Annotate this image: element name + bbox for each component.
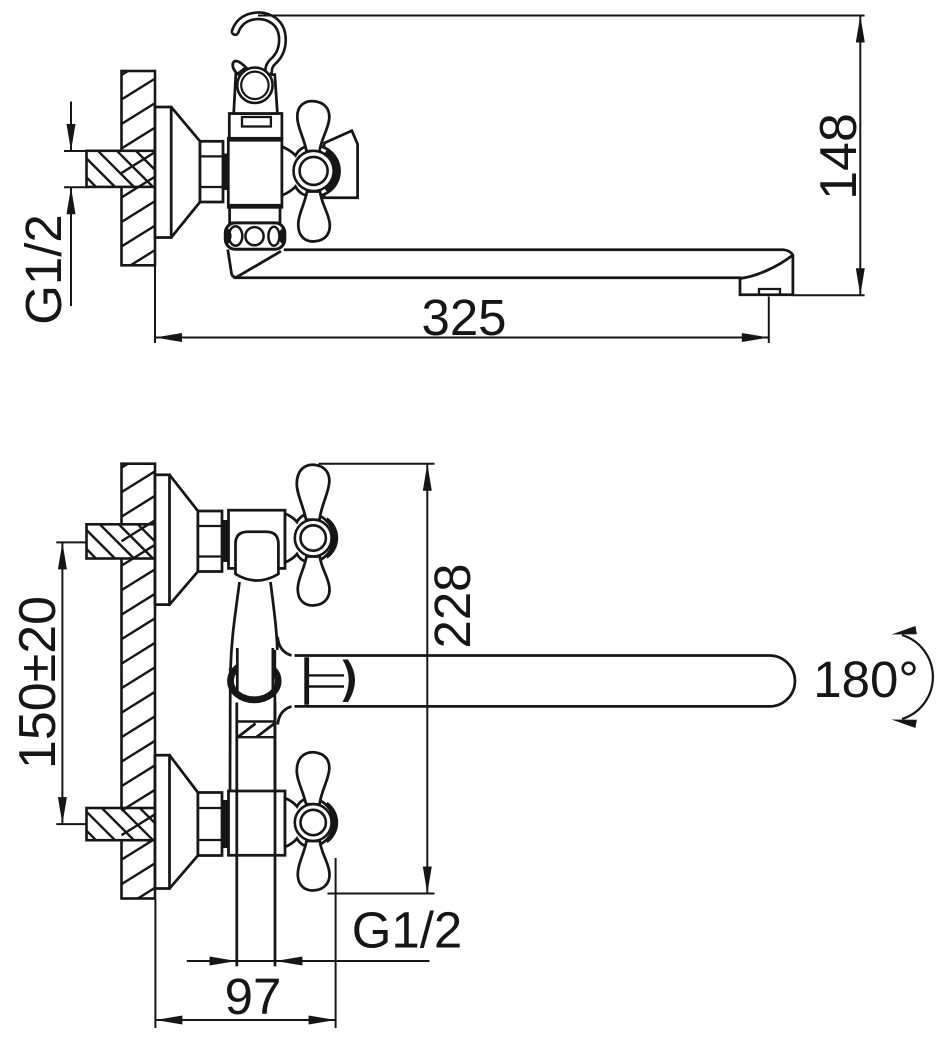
front view: swivel spout tube with round end xyxy=(295,656,795,707)
top view: spout tube xyxy=(234,250,793,295)
dimension 97: dimension line with arrows xyxy=(155,1019,335,1021)
front view: shower outlet tail G1/2 xyxy=(235,703,238,967)
front view: upper washer (dark) xyxy=(222,520,229,562)
svg-text:180°: 180° xyxy=(813,651,919,708)
front view: riser tube entering ring xyxy=(236,648,239,693)
top view: skirt under body xyxy=(230,207,280,223)
front view: spout top fillet xyxy=(278,637,292,656)
dimension 150±20: dimension line with arrows xyxy=(61,542,63,824)
top view: hook holder xyxy=(234,74,278,114)
dimension G1/2 bottom: dimension line with arrows xyxy=(187,960,430,962)
dimension 228: extension lines xyxy=(319,463,435,465)
front view: upper handle shade crescent xyxy=(324,518,338,559)
top view: body cap xyxy=(229,114,282,139)
front view: lower handle hub xyxy=(295,804,332,841)
front view: lower handle bonnet collar xyxy=(285,798,334,847)
front view: riser outer lines through ring region xyxy=(229,668,232,791)
top view: handle top spoke xyxy=(297,101,329,151)
svg-text:325: 325 xyxy=(421,289,506,346)
front view: upper supply pipe section xyxy=(87,524,156,558)
top view: ear tab xyxy=(233,61,246,74)
top view: valve body xyxy=(228,138,282,207)
front view: wall hatching xyxy=(122,464,156,899)
top view: spout transition xyxy=(228,250,281,278)
front view: upper handle hub xyxy=(295,520,332,557)
dimension G1/2 top: extension lines xyxy=(64,150,87,152)
top view: hook xyxy=(235,16,282,71)
front view: cartridge dome xyxy=(236,532,279,575)
dimension 228: dimension line with arrows xyxy=(426,464,428,894)
top view: washer (dark) xyxy=(222,154,229,191)
front view: pivot ring nut (horseshoe) xyxy=(231,662,279,700)
top view: handle hub xyxy=(294,151,334,191)
top view: supply pipe section (hatched) xyxy=(87,151,156,187)
front view: lower handle shade crescent xyxy=(324,802,338,843)
front view: lower handle bottom spoke xyxy=(298,841,330,890)
top view: aerator notch xyxy=(759,289,780,295)
front view: wall section (hatched) xyxy=(122,464,156,899)
front view: lower handle top spoke xyxy=(297,752,330,804)
dimension 148: dimension line with arrows xyxy=(859,16,861,296)
dimension G1/2 top: dimension line with arrows xyxy=(70,102,72,152)
top view: handle bonnet collar xyxy=(282,146,340,197)
front view: upper escutcheon xyxy=(155,475,198,605)
top view: spout nozzle underside curve xyxy=(740,255,793,279)
dimension 150±20: extension lines xyxy=(56,541,86,543)
dimension 325: extension lines xyxy=(154,265,156,343)
front view: upper handle top spoke xyxy=(297,465,330,520)
dimension 97: extension lines xyxy=(154,899,156,1028)
annotation 180 degrees: rotation arc with arrows xyxy=(902,635,933,719)
top view: handle bottom spoke xyxy=(298,192,330,242)
dimension 148: extension lines xyxy=(258,15,865,17)
front view: riser vase sides xyxy=(231,582,240,668)
top view: handle shade crescent xyxy=(324,149,339,193)
front view: upper handle bonnet collar xyxy=(285,514,334,563)
svg-text:97: 97 xyxy=(225,968,282,1025)
top view: cap notch xyxy=(242,117,271,127)
front view: upper wall-nut xyxy=(198,511,222,572)
front view: upper handle bottom spoke xyxy=(298,557,330,606)
top view: wall-nut (hex) xyxy=(200,141,223,202)
front view: spout bottom fillet xyxy=(278,706,292,724)
front view: lower washer (dark) xyxy=(222,800,229,848)
svg-text:228: 228 xyxy=(424,563,481,648)
front view: lower escutcheon xyxy=(155,755,198,888)
svg-text:G1/2: G1/2 xyxy=(352,902,463,959)
dimension 325: dimension line with arrows xyxy=(155,337,769,339)
svg-text:G1/2: G1/2 xyxy=(15,214,72,325)
svg-text:150±20: 150±20 xyxy=(9,596,67,769)
top view: escutcheon flange xyxy=(155,107,200,238)
front view: spout union dark band xyxy=(304,657,309,705)
top view: rear valve block xyxy=(324,131,358,198)
front view: lower wall-nut xyxy=(198,793,222,856)
top view: wall hatching xyxy=(122,71,156,265)
top view: hook ring xyxy=(237,68,272,103)
front view: upper valve body xyxy=(229,510,286,568)
front view: lower supply pipe section xyxy=(87,808,156,840)
top view: wall section (hatched) xyxy=(122,71,156,265)
front view: lower valve body xyxy=(229,791,286,855)
top view: swivel collar with balls xyxy=(225,223,284,249)
front view: union nut shade lens xyxy=(343,660,356,703)
front view: union nut grooves xyxy=(309,674,344,676)
front view: riser hatch band xyxy=(237,722,275,738)
svg-text:148: 148 xyxy=(810,113,868,200)
